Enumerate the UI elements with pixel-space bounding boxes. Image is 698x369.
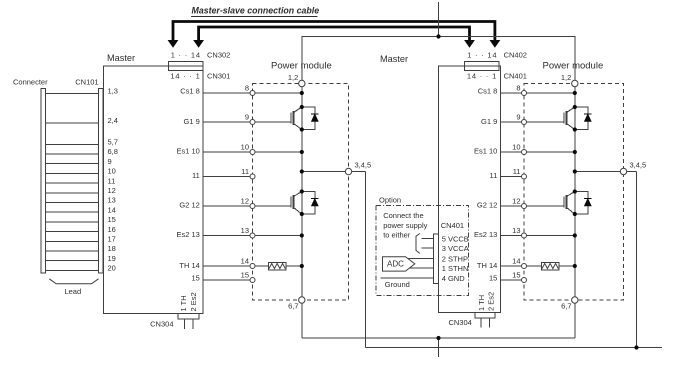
connector CN304 (master U1) (178, 314, 199, 330)
svg-text:11: 11 (241, 167, 249, 176)
svg-text:G1 9: G1 9 (481, 117, 497, 126)
wire master pin 10 to module (203, 151, 250, 153)
svg-text:3 VCCA: 3 VCCA (442, 244, 469, 253)
svg-text:Master: Master (380, 54, 408, 64)
wire pin 9 to Q3 gate (527, 121, 564, 123)
terminal 3,4,5 (620, 168, 626, 174)
svg-text:Cs1 8: Cs1 8 (478, 87, 498, 96)
svg-text:Es2 13: Es2 13 (474, 230, 497, 239)
svg-text:8: 8 (516, 84, 520, 93)
terminal 6,7 (299, 297, 305, 303)
junction dot pin10 (300, 150, 304, 154)
junction dot pin8 (573, 91, 577, 95)
svg-text:14: 14 (512, 257, 520, 266)
diode D3 (freewheel) (575, 107, 592, 130)
wire master pin 9 to module (501, 121, 522, 123)
svg-text:12: 12 (108, 186, 116, 195)
op-amp ADC block (383, 257, 415, 271)
pin terminal circle 9 (250, 120, 255, 125)
svg-text:ADC: ADC (387, 260, 404, 269)
wire pin 13 to lower emitter bus (255, 235, 302, 237)
svg-text:15: 15 (191, 274, 199, 283)
wire bracket to VCCA pin (421, 247, 433, 249)
svg-text:Master-slave connection cable: Master-slave connection cable (192, 6, 320, 16)
connector CN101 label (13, 78, 99, 87)
junction dot pin10 (573, 150, 577, 154)
pin terminal circle 12 (522, 204, 527, 209)
lead wire rung 6 (46, 172, 99, 174)
svg-text:17: 17 (108, 235, 116, 244)
svg-text:20: 20 (108, 264, 116, 273)
wire resistor R1 to bus (286, 265, 302, 267)
svg-text:19: 19 (108, 254, 116, 263)
wire P-bus top: module1 pins 1,2 to module2 pins 1,2 (302, 37, 575, 84)
svg-text:Cs1 8: Cs1 8 (180, 87, 200, 96)
wire N-bus: module1 6,7 to module2 6,7 (302, 337, 575, 339)
master U1 box (104, 66, 204, 314)
svg-text:TH 14: TH 14 (477, 261, 497, 270)
junction dot Q-lower emitter (573, 212, 577, 216)
svg-text:1 TH: 1 TH (179, 295, 188, 311)
resistor R1 (thermistor) (268, 262, 286, 270)
wire output bus 3,4,5 (366, 347, 662, 349)
power module dashed outline (524, 84, 624, 301)
lead wire rung 5 (46, 163, 99, 165)
pin terminal circle 10 (522, 150, 527, 155)
svg-text:13: 13 (108, 196, 116, 205)
wire main bus (collector-emitter chain) (301, 84, 303, 301)
svg-text:15: 15 (512, 271, 520, 280)
wire master pin 11 to module (203, 176, 250, 178)
svg-text:15: 15 (108, 215, 116, 224)
svg-text:15: 15 (241, 271, 249, 280)
wire node 3,4,5 down to output bus (636, 172, 638, 348)
junction dot pin14 (573, 264, 577, 268)
junction dot DC- stub / N-bus (436, 336, 440, 340)
svg-text:9: 9 (516, 113, 520, 122)
wire master pin 11 to module (501, 176, 522, 178)
lead wire rung 8 (46, 192, 99, 194)
svg-text:to either: to either (383, 231, 411, 240)
connector CN402/CN401 (465, 62, 499, 71)
svg-text:3,4,5: 3,4,5 (355, 161, 372, 170)
wire pin 8 to collector bus (527, 92, 575, 94)
svg-text:G1 9: G1 9 (184, 117, 200, 126)
diode D4 (freewheel) (575, 192, 592, 215)
svg-text:Master: Master (107, 53, 135, 63)
lead wire rung 1 (46, 92, 99, 94)
wire bus to N line (301, 300, 303, 338)
svg-text:18: 18 (108, 244, 116, 253)
lead wire rung 14 (46, 250, 99, 252)
diode D1 (freewheel) (302, 107, 319, 130)
lead wire rung 13 (46, 240, 99, 242)
transistor Q3 (IGBT) (564, 107, 575, 130)
svg-text:CN401: CN401 (504, 71, 527, 80)
pin terminal circle 9 (522, 120, 527, 125)
pin terminal circle 12 (250, 204, 255, 209)
wire master pin 12 to module (501, 205, 522, 207)
svg-text:1 · · 14: 1 · · 14 (467, 51, 497, 60)
wire master pin 13 to module (501, 235, 522, 237)
svg-text:14 · · 1: 14 · · 1 (467, 71, 497, 80)
junction dot Q-upper emitter (300, 127, 304, 131)
junction dot Q-lower emitter (300, 212, 304, 216)
pin terminal circle 13 (522, 233, 527, 238)
pin terminal circle 8 (522, 91, 527, 96)
junction dot Q-upper collector (300, 105, 304, 109)
wire pin 12 to Q2 gate (255, 205, 291, 207)
wire bus to N line (574, 300, 576, 338)
junction dot module2 output / output bus (634, 345, 638, 349)
terminal 6,7 (572, 297, 578, 303)
svg-text:10: 10 (108, 167, 116, 176)
svg-text:16: 16 (108, 225, 116, 234)
wire pin 14 to thermistor (527, 265, 542, 267)
junction dot Q-lower collector (300, 189, 304, 193)
svg-text:Option: Option (379, 196, 401, 205)
resistor R2 (thermistor) (541, 262, 559, 270)
junction dot pin13 (573, 233, 577, 237)
terminal 3,4,5 (345, 168, 351, 174)
svg-text:2,4: 2,4 (108, 116, 118, 125)
svg-text:11: 11 (192, 171, 200, 180)
junction dot output 3,4,5 (300, 169, 304, 173)
lead wire rung 9 (46, 202, 99, 204)
svg-text:Es1 10: Es1 10 (176, 147, 199, 156)
wire master pin 14 to module (501, 265, 522, 267)
wire pin 8 to collector bus (255, 92, 302, 94)
pin terminal circle 13 (250, 233, 255, 238)
svg-text:5,7: 5,7 (108, 138, 118, 147)
lead wire rung 3 (46, 143, 99, 145)
svg-text:11: 11 (490, 171, 498, 180)
svg-text:10: 10 (241, 143, 249, 152)
wire master pin 15 to module (203, 279, 250, 281)
svg-text:1,2: 1,2 (561, 73, 571, 82)
svg-text:6,7: 6,7 (561, 302, 571, 311)
svg-text:2 STHP: 2 STHP (442, 254, 468, 263)
master U2 box (439, 66, 501, 313)
svg-text:12: 12 (512, 197, 520, 206)
junction dot Q-lower collector (573, 189, 577, 193)
svg-text:1,2: 1,2 (288, 73, 298, 82)
diode D2 (freewheel) (302, 192, 319, 215)
svg-text:15: 15 (489, 274, 497, 283)
wire pin 10 to emitter bus (527, 151, 575, 153)
wire pin 14 to thermistor (255, 265, 268, 267)
transistor Q4 (IGBT) (564, 192, 575, 215)
junction dot Q-upper emitter (573, 127, 577, 131)
pin terminal circle 14 (522, 264, 527, 269)
junction dot pin14 (300, 264, 304, 268)
svg-text:Connecter: Connecter (13, 78, 48, 87)
lead wire rung 12 (46, 231, 99, 233)
svg-text:Es2 13: Es2 13 (176, 230, 199, 239)
lead wire rung 7 (46, 182, 99, 184)
connector CN401 side header (434, 234, 439, 283)
svg-text:1 TH: 1 TH (477, 295, 486, 311)
svg-text:3,4,5: 3,4,5 (630, 161, 647, 170)
pin terminal circle 15 (522, 278, 527, 283)
svg-text:11: 11 (513, 167, 521, 176)
connector CN302/CN301 (168, 62, 203, 71)
svg-text:14: 14 (241, 257, 249, 266)
pin terminal circle 10 (250, 150, 255, 155)
svg-text:9: 9 (108, 157, 112, 166)
terminal 1,2 (299, 80, 305, 86)
wire pin 12 to Q4 gate (527, 205, 564, 207)
cable outer run (CN302 pin1 to CN402 pin14) (168, 22, 501, 48)
svg-text:1 STHN: 1 STHN (442, 264, 469, 273)
svg-text:Ground: Ground (385, 280, 410, 289)
lead wire rung 2 (46, 122, 99, 124)
wire ground to GND pin (381, 277, 434, 279)
transistor Q2 (IGBT) (291, 192, 302, 215)
svg-text:11: 11 (108, 176, 116, 185)
pin terminal circle 14 (250, 264, 255, 269)
svg-text:Es1 10: Es1 10 (474, 147, 497, 156)
svg-text:14 · · 1: 14 · · 1 (170, 71, 200, 80)
wire master pin 8 to module (501, 92, 522, 94)
junction dot output 3,4,5 (573, 169, 577, 173)
svg-text:Connect the: Connect the (383, 211, 423, 220)
svg-text:CN401: CN401 (441, 221, 464, 230)
svg-text:Lead: Lead (64, 287, 81, 296)
pin terminal circle 8 (250, 91, 255, 96)
wire master pin 8 to module (203, 92, 250, 94)
lead wire rung 10 (46, 211, 99, 213)
svg-text:Power module: Power module (271, 61, 332, 72)
wire pin 10 to emitter bus (255, 151, 302, 153)
wire output to node 3,4,5 (302, 171, 366, 173)
svg-text:14: 14 (108, 205, 116, 214)
svg-text:4 GND: 4 GND (442, 274, 466, 283)
transistor Q1 (IGBT) (291, 107, 302, 130)
svg-text:2 Es2: 2 Es2 (189, 292, 198, 311)
svg-text:1 · · 14: 1 · · 14 (171, 51, 201, 60)
lead brace (49, 279, 98, 284)
svg-text:12: 12 (241, 197, 249, 206)
wire master pin 13 to module (203, 235, 250, 237)
svg-text:6,7: 6,7 (288, 302, 298, 311)
svg-text:13: 13 (512, 226, 520, 235)
junction dot Q-upper collector (573, 105, 577, 109)
svg-text:G2 12: G2 12 (477, 201, 497, 210)
wire master pin 9 to module (203, 121, 250, 123)
power-supply selector bracket (416, 233, 420, 253)
svg-text:CN302: CN302 (207, 51, 230, 60)
svg-text:CN304: CN304 (448, 318, 471, 327)
wire master pin 10 to module (501, 151, 522, 153)
connector CN101 left rail (41, 88, 46, 273)
svg-text:CN304: CN304 (150, 319, 173, 328)
svg-text:13: 13 (241, 226, 249, 235)
svg-text:CN402: CN402 (504, 51, 527, 60)
wire ADC to STHN pin (409, 267, 434, 269)
svg-text:TH 14: TH 14 (179, 261, 199, 270)
svg-text:6,8: 6,8 (108, 147, 118, 156)
power module dashed outline (253, 84, 349, 301)
wire ADC to STHP pin (408, 258, 434, 260)
svg-text:5 VCCB: 5 VCCB (442, 234, 469, 243)
svg-text:G2 12: G2 12 (179, 201, 199, 210)
lead wire rung 11 (46, 221, 99, 223)
svg-text:power supply: power supply (383, 221, 427, 230)
wire pin 13 to lower emitter bus (527, 235, 575, 237)
wire pin 9 to Q1 gate (255, 121, 291, 123)
cable inner run (CN302 pin14 to CN402 pin1) (193, 27, 475, 48)
svg-text:CN301: CN301 (207, 71, 230, 80)
junction dot DC+ stub / P-bus (436, 34, 440, 38)
connector CN101 right rail (98, 88, 103, 273)
wire master pin 14 to module (203, 265, 250, 267)
wire external DC+ stub (438, 2, 440, 37)
svg-text:Power module: Power module (543, 61, 604, 72)
lead wire rung 15 (46, 260, 99, 262)
svg-text:9: 9 (245, 113, 249, 122)
svg-text:CN101: CN101 (75, 78, 98, 87)
title: Master-slave connection cable (191, 6, 319, 17)
terminal 1,2 (572, 80, 578, 86)
wire output to node 3,4,5 (575, 171, 637, 173)
wire external DC- stub (438, 338, 440, 357)
svg-text:2 Es2: 2 Es2 (487, 292, 496, 311)
pin terminal circle 11 (522, 174, 527, 179)
wire main bus (collector-emitter chain) (574, 84, 576, 301)
wire node 3,4,5 down to output bus (365, 172, 367, 348)
svg-text:10: 10 (512, 143, 520, 152)
connector CN304 (master U2) (475, 313, 495, 328)
lead wire rung 16 (46, 269, 99, 271)
option note text (383, 211, 427, 240)
junction dot pin13 (300, 233, 304, 237)
wire resistor R2 to bus (559, 265, 575, 267)
svg-text:1,3: 1,3 (108, 87, 118, 96)
pin terminal circle 11 (250, 174, 255, 179)
svg-text:8: 8 (245, 84, 249, 93)
lead wire rung 4 (46, 153, 99, 155)
pin terminal circle 15 (250, 278, 255, 283)
wire master pin 12 to module (203, 205, 250, 207)
wire master pin 15 to module (501, 279, 522, 281)
junction dot pin8 (300, 91, 304, 95)
wire bracket to VCCB pin (421, 238, 433, 240)
option dash-dot box (376, 206, 469, 296)
